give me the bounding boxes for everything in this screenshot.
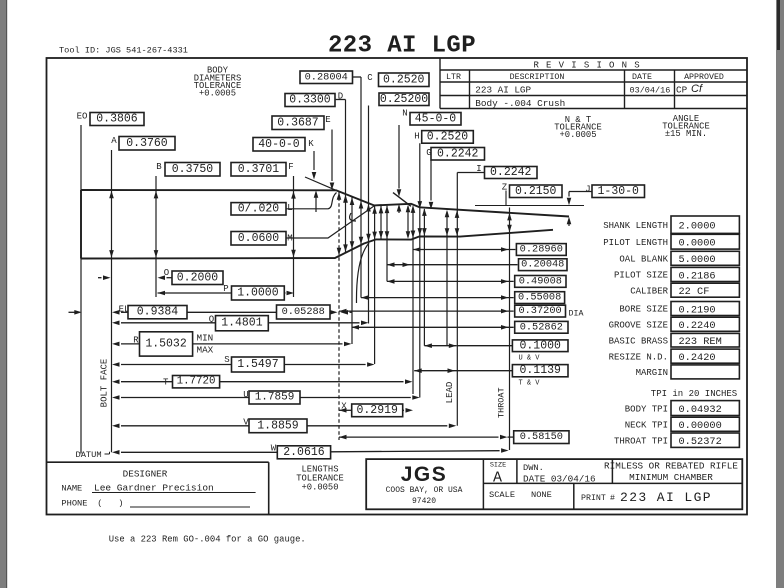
svg-text:0.49008: 0.49008 [519, 275, 562, 287]
svg-text:NECK TPI: NECK TPI [625, 420, 668, 430]
svg-text:223 REM: 223 REM [679, 336, 722, 348]
svg-text:RIMLESS OR REBATED RIFLE: RIMLESS OR REBATED RIFLE [604, 461, 738, 472]
svg-text:RESIZE N.D.: RESIZE N.D. [609, 352, 668, 362]
svg-text:0.2190: 0.2190 [679, 304, 716, 316]
svg-text:DESIGNER: DESIGNER [123, 469, 168, 480]
svg-text:BOLT FACE: BOLT FACE [100, 359, 110, 408]
svg-text:5.0000: 5.0000 [679, 254, 716, 266]
svg-text:CP: CP [676, 85, 688, 96]
svg-text:A: A [111, 136, 117, 146]
svg-text:#: # [610, 494, 615, 503]
svg-text:(: ( [97, 499, 102, 509]
svg-text:1.4801: 1.4801 [221, 317, 263, 330]
svg-text:Lee Gardner Precision: Lee Gardner Precision [94, 483, 214, 494]
svg-text:0/.020: 0/.020 [238, 202, 280, 215]
svg-text:THROAT TPI: THROAT TPI [614, 436, 668, 446]
svg-text:M: M [287, 234, 292, 244]
svg-text:+0.0005: +0.0005 [199, 89, 236, 99]
svg-text:1.7720: 1.7720 [177, 376, 216, 388]
svg-text:0.55008: 0.55008 [518, 292, 561, 304]
svg-text:0.2000: 0.2000 [177, 271, 219, 284]
svg-text:03/04/16: 03/04/16 [630, 86, 671, 96]
svg-text:B: B [156, 162, 162, 172]
svg-text:D: D [338, 92, 343, 102]
svg-text:0.28960: 0.28960 [520, 244, 563, 256]
svg-text:0.04932: 0.04932 [679, 404, 722, 416]
svg-text:PILOT SIZE: PILOT SIZE [614, 271, 668, 281]
svg-text:0.37200: 0.37200 [518, 305, 561, 317]
svg-text:L: L [287, 203, 292, 213]
svg-text:J: J [585, 185, 590, 195]
svg-text:DATE 03/04/16: DATE 03/04/16 [523, 474, 596, 485]
svg-text:1.7859: 1.7859 [255, 392, 295, 404]
svg-text:0.3300: 0.3300 [289, 94, 331, 107]
svg-text:0.2520: 0.2520 [427, 130, 469, 143]
svg-text:0.00000: 0.00000 [679, 420, 722, 432]
svg-text:2.0000: 2.0000 [679, 221, 716, 233]
svg-text:223 AI LGP: 223 AI LGP [620, 490, 712, 505]
svg-text:Cf: Cf [691, 83, 703, 95]
svg-text:0.3760: 0.3760 [126, 137, 168, 150]
svg-text:Tool ID: JGS 541-267-4331: Tool ID: JGS 541-267-4331 [59, 45, 188, 55]
svg-text:+0.0005: +0.0005 [560, 130, 597, 140]
svg-text:S: S [224, 355, 229, 365]
svg-text:1.0000: 1.0000 [237, 287, 279, 300]
svg-text:DATUM: DATUM [76, 450, 102, 460]
svg-text:Use a 223 Rem GO-.004 for a GO: Use a 223 Rem GO-.004 for a GO gauge. [109, 535, 306, 545]
svg-text:SIZE: SIZE [490, 462, 506, 470]
svg-text:0.2242: 0.2242 [490, 166, 532, 179]
svg-text:N: N [402, 109, 407, 119]
svg-text:0.3687: 0.3687 [277, 116, 318, 129]
svg-text:+0.0050: +0.0050 [302, 483, 339, 493]
svg-text:0.28004: 0.28004 [305, 71, 348, 83]
svg-text:SHANK LENGTH: SHANK LENGTH [603, 221, 668, 231]
svg-text:I: I [476, 164, 481, 174]
svg-text:A: A [493, 470, 502, 487]
svg-text:JGS: JGS [401, 463, 448, 486]
svg-text:±15 MIN.: ±15 MIN. [665, 129, 707, 139]
svg-text:1.8859: 1.8859 [257, 419, 299, 432]
svg-text:BASIC BRASS: BASIC BRASS [609, 336, 668, 346]
svg-text:PHONE: PHONE [61, 499, 87, 509]
svg-text:TPI in 20 INCHES: TPI in 20 INCHES [651, 389, 737, 399]
svg-text:0.3750: 0.3750 [172, 163, 214, 176]
svg-text:CALIBER: CALIBER [630, 286, 668, 296]
svg-text:0.2242: 0.2242 [437, 147, 479, 160]
svg-text:0.2186: 0.2186 [679, 270, 716, 282]
svg-text:F: F [288, 162, 293, 172]
svg-text:MAX: MAX [197, 345, 214, 356]
svg-text:DATE: DATE [632, 73, 652, 82]
svg-text:DESCRIPTION: DESCRIPTION [510, 73, 565, 82]
svg-text:SCALE: SCALE [489, 490, 515, 500]
svg-text:MINIMUM CHAMBER: MINIMUM CHAMBER [629, 472, 713, 483]
svg-text:0.05288: 0.05288 [282, 306, 325, 318]
svg-text:EO: EO [77, 112, 88, 122]
svg-text:NAME: NAME [61, 484, 82, 494]
svg-text:1-30-0: 1-30-0 [598, 185, 640, 198]
svg-text:0.2919: 0.2919 [356, 404, 398, 417]
svg-text:Z: Z [502, 183, 508, 193]
svg-text:22 CF: 22 CF [679, 286, 710, 298]
svg-text:0.52862: 0.52862 [520, 321, 563, 333]
svg-text:MIN: MIN [197, 333, 214, 344]
svg-text:0.58150: 0.58150 [520, 431, 563, 443]
svg-text:0.0000: 0.0000 [679, 238, 716, 250]
svg-text:0.20048: 0.20048 [521, 259, 564, 271]
svg-text:0.3701: 0.3701 [238, 163, 280, 176]
svg-text:223 AI LGP: 223 AI LGP [475, 85, 531, 96]
svg-text:MARGIN: MARGIN [636, 368, 668, 378]
svg-text:97420: 97420 [412, 497, 436, 506]
svg-text:LTR: LTR [446, 73, 461, 82]
svg-text:0.1000: 0.1000 [519, 339, 561, 352]
svg-text:OAL BLANK: OAL BLANK [619, 255, 668, 265]
svg-text:0.3806: 0.3806 [96, 113, 138, 126]
svg-text:PILOT LENGTH: PILOT LENGTH [603, 238, 668, 248]
svg-text:40-0-0: 40-0-0 [258, 138, 300, 151]
svg-text:H: H [414, 132, 419, 142]
svg-text:APPROVED: APPROVED [684, 73, 724, 82]
svg-text:K: K [308, 139, 314, 149]
svg-text:0.2420: 0.2420 [679, 352, 716, 364]
svg-text:G: G [426, 148, 431, 158]
svg-text:C: C [367, 73, 373, 83]
svg-text:0.52372: 0.52372 [679, 436, 722, 448]
svg-text:0.2520: 0.2520 [383, 73, 425, 86]
svg-text:45-0-0: 45-0-0 [415, 112, 457, 125]
svg-text:0.9384: 0.9384 [137, 306, 179, 319]
svg-text:): ) [118, 499, 123, 509]
svg-text:0.2150: 0.2150 [515, 185, 557, 198]
svg-text:T: T [163, 378, 169, 388]
svg-text:T & V: T & V [518, 380, 540, 388]
svg-text:2.0616: 2.0616 [283, 446, 325, 459]
svg-text:0.2240: 0.2240 [679, 320, 716, 332]
svg-text:GROOVE SIZE: GROOVE SIZE [609, 320, 668, 330]
svg-text:0.1139: 0.1139 [519, 364, 561, 377]
svg-text:0.0600: 0.0600 [238, 232, 280, 245]
svg-text:LEAD: LEAD [445, 382, 455, 404]
svg-text:0.25200: 0.25200 [380, 93, 428, 106]
svg-text:NONE: NONE [531, 490, 552, 500]
svg-text:U: U [243, 390, 248, 400]
svg-text:BORE SIZE: BORE SIZE [619, 305, 668, 315]
svg-text:U & V: U & V [518, 355, 540, 363]
svg-text:1.5497: 1.5497 [237, 358, 278, 371]
svg-text:DIA: DIA [569, 310, 584, 319]
svg-text:COOS BAY, OR USA: COOS BAY, OR USA [386, 486, 463, 495]
svg-text:BODY TPI: BODY TPI [625, 404, 668, 414]
svg-text:THROAT: THROAT [497, 387, 507, 418]
svg-text:1.5032: 1.5032 [145, 337, 187, 350]
svg-text:E: E [325, 115, 330, 125]
svg-text:223 AI LGP: 223 AI LGP [328, 32, 476, 59]
svg-text:DWN.: DWN. [523, 463, 544, 473]
svg-text:R E V I S I O N S: R E V I S I O N S [533, 61, 640, 71]
svg-text:Body -.004 Crush: Body -.004 Crush [475, 98, 565, 109]
svg-text:PRINT: PRINT [581, 494, 606, 503]
